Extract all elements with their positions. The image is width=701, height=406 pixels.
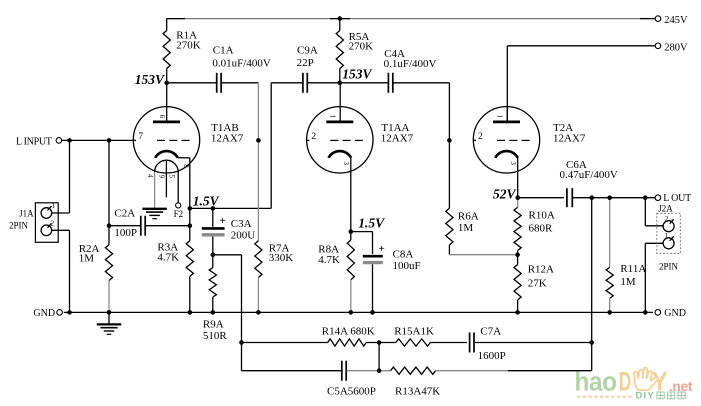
svg-text:1: 1 — [329, 115, 336, 118]
svg-text:3: 3 — [509, 161, 516, 165]
svg-text:GND: GND — [33, 308, 55, 319]
svg-text:153V: 153V — [342, 67, 372, 82]
svg-text:2: 2 — [311, 132, 316, 142]
svg-text:200U: 200U — [231, 229, 256, 241]
svg-text:12AX7: 12AX7 — [211, 132, 244, 144]
svg-text:12AX7: 12AX7 — [381, 132, 414, 144]
svg-text:R14A 680K: R14A 680K — [322, 326, 375, 338]
svg-text:C3A: C3A — [231, 218, 252, 230]
svg-text:F2: F2 — [174, 209, 184, 219]
svg-text:0.01uF/400V: 0.01uF/400V — [212, 58, 270, 70]
svg-text:4.7K: 4.7K — [157, 251, 179, 263]
svg-text:9: 9 — [157, 175, 164, 179]
svg-text:100uF: 100uF — [393, 260, 421, 272]
svg-text:J2A: J2A — [658, 203, 673, 213]
svg-text:4.7K: 4.7K — [318, 254, 340, 266]
svg-text:2: 2 — [478, 132, 483, 142]
svg-text:R13A47K: R13A47K — [395, 386, 440, 398]
svg-text:680R: 680R — [529, 222, 554, 234]
svg-text:C8A: C8A — [393, 249, 414, 261]
svg-text:C9A: C9A — [297, 44, 318, 56]
svg-text:0.47uF/400V: 0.47uF/400V — [560, 169, 618, 181]
svg-text:330K: 330K — [269, 252, 294, 264]
svg-text:0.1uF/400V: 0.1uF/400V — [384, 58, 437, 70]
svg-text:1M: 1M — [458, 222, 474, 234]
svg-text:+: + — [220, 215, 226, 227]
svg-text:2PIN: 2PIN — [659, 261, 679, 271]
svg-text:7: 7 — [138, 132, 143, 142]
svg-text:27K: 27K — [528, 277, 547, 289]
svg-text:270K: 270K — [176, 39, 201, 51]
svg-text:R10A: R10A — [529, 210, 555, 222]
svg-text:DIY: DIY — [636, 391, 655, 402]
svg-text:1: 1 — [52, 202, 56, 210]
svg-text:L INPUT: L INPUT — [16, 136, 52, 147]
svg-text:1: 1 — [496, 115, 503, 118]
svg-text:R6A: R6A — [458, 211, 479, 223]
svg-text:R11A: R11A — [620, 263, 646, 275]
svg-text:5: 5 — [168, 175, 175, 179]
svg-text:C5A5600P: C5A5600P — [327, 386, 376, 398]
svg-text:4: 4 — [146, 174, 153, 178]
svg-text:1600P: 1600P — [478, 350, 506, 362]
svg-text:8: 8 — [182, 164, 189, 168]
svg-text:280V: 280V — [664, 42, 688, 53]
svg-text:R12A: R12A — [528, 264, 554, 276]
svg-text:1.5V: 1.5V — [193, 193, 220, 208]
svg-text:3: 3 — [342, 161, 349, 165]
svg-text:22P: 22P — [297, 57, 314, 69]
svg-text:1: 1 — [665, 232, 669, 240]
svg-text:+: + — [379, 243, 385, 255]
svg-text:100P: 100P — [114, 227, 137, 239]
svg-text:hao: hao — [575, 368, 617, 397]
svg-text:510R: 510R — [203, 330, 228, 342]
svg-text:C7A: C7A — [480, 326, 501, 338]
svg-text:J1A: J1A — [19, 209, 34, 219]
svg-text:12AX7: 12AX7 — [553, 132, 586, 144]
svg-text:C2A: C2A — [114, 208, 135, 220]
svg-text:C1A: C1A — [213, 44, 234, 56]
svg-text:6: 6 — [158, 115, 165, 119]
svg-text:GND: GND — [664, 308, 686, 319]
svg-text:1.5V: 1.5V — [358, 215, 385, 230]
svg-text:2: 2 — [51, 219, 55, 227]
svg-text:1M: 1M — [620, 276, 636, 288]
svg-text:270K: 270K — [349, 40, 374, 52]
svg-text:1M: 1M — [79, 252, 95, 264]
svg-text:2: 2 — [665, 215, 669, 223]
svg-text:R9A: R9A — [203, 319, 224, 331]
svg-text:R15A1K: R15A1K — [394, 326, 434, 338]
svg-text:2PIN: 2PIN — [9, 221, 29, 231]
svg-text:52V: 52V — [493, 186, 517, 201]
svg-text:245V: 245V — [664, 15, 688, 26]
svg-text:D: D — [619, 365, 631, 396]
svg-text:153V: 153V — [135, 72, 165, 87]
